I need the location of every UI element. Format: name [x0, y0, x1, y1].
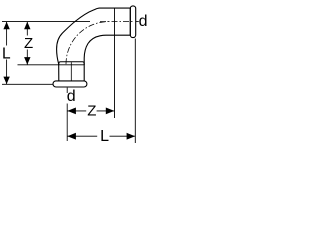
svg-text:Z: Z	[24, 35, 33, 52]
svg-text:L: L	[100, 128, 109, 145]
svg-text:d: d	[67, 88, 76, 105]
svg-text:d: d	[139, 13, 148, 30]
svg-text:Z: Z	[87, 102, 96, 119]
svg-text:L: L	[2, 45, 11, 62]
